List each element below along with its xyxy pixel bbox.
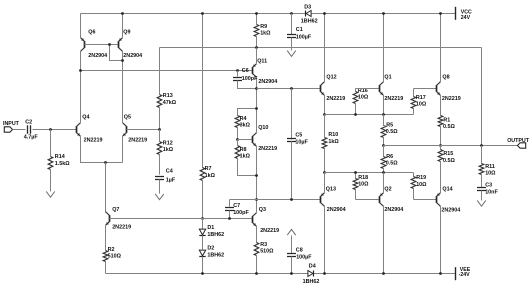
wire Q14 collector to bottom rail — [440, 207, 442, 274]
svg-text:10Ω: 10Ω — [416, 182, 427, 188]
svg-text:10nF: 10nF — [485, 189, 498, 195]
resistor R15 0.5Ω — [440, 146, 442, 150]
transistor Q3 2N2219 — [252, 216, 254, 223]
wire Q9 collector to Q5 collector — [122, 51, 124, 123]
transistor Q14 2N2904 — [436, 196, 438, 203]
svg-text:Q11: Q11 — [257, 59, 267, 65]
svg-text:0.5Ω: 0.5Ω — [386, 160, 398, 166]
capacitor C7 100pF — [229, 200, 231, 207]
svg-text:0.5Ω: 0.5Ω — [386, 129, 398, 135]
wire C7 top to Q3 collector node — [230, 199, 257, 201]
svg-text:C7: C7 — [233, 203, 240, 209]
wire Q11 emitter up — [256, 48, 258, 64]
wire top supply rail left of D3 — [81, 13, 306, 15]
wire VAS to Q12 base and C5 — [257, 88, 321, 90]
svg-text:R1: R1 — [443, 118, 450, 124]
OUTPUT terminal — [518, 143, 526, 148]
resistor R2 510Ω — [105, 226, 107, 251]
wire feedback drop to output rail — [481, 48, 483, 146]
svg-text:1BH62: 1BH62 — [207, 253, 224, 259]
diode D4 1BH62 — [308, 271, 313, 277]
svg-text:Q2: Q2 — [384, 187, 391, 193]
wire Q10 emitter to Q3 collector — [256, 146, 258, 213]
wire D2 to bottom rail — [202, 257, 204, 274]
svg-text:0.5Ω: 0.5Ω — [443, 124, 455, 130]
svg-text:Q4: Q4 — [82, 115, 89, 121]
wire Q1 emitter down — [383, 95, 385, 115]
wire node T — [325, 114, 414, 116]
svg-text:1kΩ: 1kΩ — [205, 173, 216, 179]
svg-text:R5: R5 — [386, 123, 393, 129]
wire tail to Q7 collector — [105, 163, 107, 213]
wire top supply rail right of D3 — [312, 13, 456, 15]
wire R16 top to Q1 base — [356, 88, 379, 90]
svg-text:10µF: 10µF — [295, 140, 308, 146]
svg-text:2N2904: 2N2904 — [88, 53, 107, 59]
junction tail node — [104, 161, 107, 164]
resistor R13 47kΩ — [159, 48, 161, 95]
svg-text:10Ω: 10Ω — [485, 170, 496, 176]
resistor R12 1kΩ — [159, 130, 161, 142]
transistor Q10 2N2219 — [252, 136, 254, 143]
svg-text:Q9: Q9 — [123, 30, 130, 36]
resistor R3 510Ω — [256, 226, 258, 243]
svg-text:10Ω: 10Ω — [358, 94, 369, 100]
resistor R16 10Ω — [355, 89, 357, 92]
svg-text:100pF: 100pF — [242, 76, 258, 82]
svg-text:24V: 24V — [461, 15, 471, 21]
transistor Q12 2N2219 — [320, 85, 322, 92]
svg-text:100pF: 100pF — [233, 210, 249, 216]
svg-text:1kΩ: 1kΩ — [328, 139, 339, 145]
wire bottom supply rail left of D4 — [106, 273, 308, 275]
resistor R10 1kΩ — [324, 115, 326, 138]
transistor Q8 2N2219 — [436, 85, 438, 92]
wire R8 to Q10 emitter node — [238, 159, 257, 176]
svg-text:Q5: Q5 — [124, 115, 131, 121]
svg-text:Q7: Q7 — [112, 207, 119, 213]
ground above C8 — [287, 229, 296, 235]
capacitor C4 1µF — [155, 177, 164, 180]
svg-text:C1: C1 — [296, 27, 303, 33]
svg-text:D2: D2 — [207, 246, 214, 252]
junction VAS top node — [255, 87, 258, 90]
wire output rail — [384, 145, 518, 147]
svg-text:2N2904: 2N2904 — [384, 207, 403, 213]
VCC terminal — [455, 7, 457, 20]
ground below R14 — [46, 191, 55, 197]
transistor Q2 2N2904 — [379, 196, 381, 203]
diode D1 1BH62 — [202, 219, 204, 230]
junction output rail left end — [382, 144, 385, 147]
resistor R18 10Ω — [355, 173, 357, 179]
capacitor C3 10nF — [477, 188, 486, 191]
ground below C1 — [287, 51, 296, 57]
wire C2 to Q4 base, node A — [33, 129, 77, 131]
transistor Q9 2N2904 — [118, 41, 120, 48]
wire Q7 base to bias chain and Q3 base — [110, 218, 252, 220]
svg-text:Q3: Q3 — [259, 207, 266, 213]
wire Q13 emitter up — [324, 173, 326, 193]
wire R17 top to Q8 base — [414, 88, 437, 90]
svg-text:1BH62: 1BH62 — [207, 232, 224, 238]
svg-text:R17: R17 — [416, 95, 426, 101]
wire diff output to Q11 base — [81, 70, 252, 72]
wire base tie to Q9 collector — [110, 45, 123, 61]
svg-text:R13: R13 — [163, 93, 173, 99]
svg-text:510Ω: 510Ω — [260, 248, 274, 254]
wire bottom supply rail right of D4 — [314, 273, 456, 275]
transistor Q4 2N2219 — [76, 126, 78, 133]
svg-text:1kΩ: 1kΩ — [260, 30, 271, 36]
wire feedback from output — [160, 47, 482, 49]
svg-text:R2: R2 — [108, 247, 115, 253]
capacitor C8 100µF — [291, 236, 293, 254]
junction node T — [323, 113, 326, 116]
svg-text:Q13: Q13 — [326, 187, 336, 193]
svg-text:2N2219: 2N2219 — [326, 96, 345, 102]
junction VAS bottom node — [255, 198, 258, 201]
wire Q6 collector down — [80, 51, 82, 71]
wire Q3 collector to Q13 base and C5 — [257, 199, 321, 201]
wire Q12 emitter down — [324, 95, 326, 115]
svg-text:47kΩ: 47kΩ — [163, 100, 177, 106]
wire Q2 collector to bottom rail — [383, 207, 385, 274]
junction node B — [323, 171, 326, 174]
wire Q1 collector to rail — [383, 14, 385, 82]
svg-text:1BH62: 1BH62 — [301, 19, 318, 25]
resistor R8 1kΩ — [235, 146, 240, 159]
svg-text:OUTPUT: OUTPUT — [507, 138, 530, 144]
resistor R14 1.5kΩ — [50, 130, 52, 157]
resistor R19 10Ω — [413, 173, 415, 177]
svg-text:INPUT: INPUT — [3, 121, 20, 127]
svg-text:R4: R4 — [240, 116, 247, 122]
transistor Q11 2N2904 — [252, 67, 254, 74]
wire Q6 emitter to rail — [80, 14, 82, 38]
svg-text:2N2219: 2N2219 — [128, 137, 147, 143]
wire R19 bottom to Q14 base — [414, 199, 437, 201]
svg-text:R3: R3 — [260, 242, 267, 248]
INPUT terminal — [4, 127, 12, 132]
wire Q5 base to feedback node — [127, 129, 160, 131]
wire node B — [325, 172, 414, 174]
svg-text:100µF: 100µF — [296, 34, 312, 40]
svg-text:1BH62: 1BH62 — [303, 279, 320, 285]
wire C4 to ground — [159, 180, 161, 194]
svg-text:3kΩ: 3kΩ — [240, 122, 251, 128]
wire input to C2 — [13, 129, 26, 131]
wire Q11 collector to Q10 collector — [256, 78, 258, 133]
svg-text:2N2219: 2N2219 — [260, 228, 279, 234]
svg-text:Q12: Q12 — [326, 75, 336, 81]
svg-text:2N2219: 2N2219 — [442, 96, 461, 102]
resistor R7 1kΩ — [202, 14, 204, 168]
svg-text:Q10: Q10 — [258, 125, 268, 131]
resistor R5 0.5Ω — [383, 115, 385, 126]
svg-text:1kΩ: 1kΩ — [240, 153, 251, 159]
capacitor C1 100µF — [290, 12, 293, 15]
node A junction input bias — [49, 128, 52, 131]
svg-text:10Ω: 10Ω — [416, 101, 427, 107]
svg-text:4.7µF: 4.7µF — [24, 135, 39, 141]
svg-text:D3: D3 — [304, 4, 311, 10]
svg-text:C3: C3 — [485, 183, 492, 189]
svg-text:510Ω: 510Ω — [108, 254, 122, 260]
svg-text:R8: R8 — [240, 147, 247, 153]
transistor Q5 2N2219 — [126, 126, 128, 133]
VEE terminal — [455, 267, 457, 280]
svg-text:R9: R9 — [260, 24, 267, 30]
svg-text:2N2904: 2N2904 — [258, 79, 277, 85]
svg-text:R18: R18 — [358, 175, 368, 181]
svg-text:D1: D1 — [207, 225, 214, 231]
capacitor C6 100pF — [236, 69, 239, 72]
svg-text:2N2219: 2N2219 — [112, 224, 131, 230]
svg-text:-24V: -24V — [459, 272, 470, 278]
wire C6 to Q11 collector node — [238, 81, 257, 89]
svg-text:D4: D4 — [309, 263, 316, 269]
diode D2 1BH62 — [202, 236, 204, 250]
transistor Q13 2N2904 — [320, 196, 322, 203]
svg-text:R11: R11 — [485, 164, 495, 170]
wire Q9 emitter to rail — [122, 14, 124, 38]
wire mirror base tie — [85, 44, 118, 46]
wire Q2 emitter up — [383, 173, 385, 193]
wire Q13 collector to bottom rail — [324, 207, 326, 274]
svg-text:C6: C6 — [242, 68, 249, 74]
resistor R11 10Ω — [481, 146, 483, 164]
svg-text:C2: C2 — [25, 119, 32, 125]
ground below C3 — [477, 200, 486, 206]
transistor Q6 2N2904 — [84, 41, 86, 48]
svg-text:C4: C4 — [166, 169, 173, 175]
svg-text:2N2219: 2N2219 — [84, 137, 103, 143]
junction bias node Q7/Q3 base — [201, 217, 204, 220]
wire diff pair tail — [81, 137, 123, 163]
wire to Q10 base — [238, 139, 252, 141]
junction R4/R8 node Q10 base — [236, 138, 239, 141]
diode D3 1BH62 — [306, 11, 311, 17]
wire Q5 emitter to tail — [122, 137, 124, 163]
junction Q5 base node — [158, 128, 161, 131]
wire Q8 emitter down — [440, 95, 442, 116]
svg-text:Q14: Q14 — [442, 187, 452, 193]
svg-text:2N2904: 2N2904 — [441, 208, 460, 214]
resistor R1 0.5Ω — [438, 116, 443, 127]
svg-text:Q1: Q1 — [384, 75, 391, 81]
svg-text:2N2219: 2N2219 — [258, 146, 277, 152]
svg-text:10Ω: 10Ω — [358, 181, 369, 187]
svg-text:C8: C8 — [296, 247, 303, 253]
capacitor C2 4.7µF — [28, 125, 31, 133]
svg-text:100µF: 100µF — [296, 254, 312, 260]
svg-text:R10: R10 — [328, 132, 338, 138]
junction Q11 emitter node — [255, 46, 258, 49]
svg-text:Q6: Q6 — [88, 30, 95, 36]
svg-text:2N2904: 2N2904 — [327, 207, 346, 213]
resistor R17 10Ω — [413, 89, 415, 97]
capacitor C5 10µF — [290, 87, 293, 90]
svg-text:2N2219: 2N2219 — [384, 96, 403, 102]
svg-text:R15: R15 — [443, 151, 453, 157]
svg-text:2N2904: 2N2904 — [123, 53, 142, 59]
wire node to Q4 collector — [80, 71, 82, 123]
svg-text:R19: R19 — [416, 175, 426, 181]
svg-text:1.5kΩ: 1.5kΩ — [55, 161, 70, 167]
svg-text:0.5Ω: 0.5Ω — [443, 158, 455, 164]
transistor Q7 2N2219 — [109, 215, 111, 222]
wire Q8 collector to rail — [440, 14, 442, 82]
svg-text:R7: R7 — [205, 166, 212, 172]
transistor Q1 2N2219 — [379, 85, 381, 92]
resistor R9 1kΩ — [256, 14, 258, 25]
ground below C4 — [155, 194, 164, 200]
resistor R6 0.5Ω — [383, 146, 385, 157]
wire Q12 collector to rail — [324, 14, 326, 82]
svg-text:Q8: Q8 — [442, 75, 449, 81]
svg-text:C5: C5 — [295, 133, 302, 139]
svg-text:1kΩ: 1kΩ — [163, 147, 174, 153]
svg-text:1µF: 1µF — [166, 177, 176, 183]
wire R18 bottom to Q2 base — [356, 199, 379, 201]
svg-text:R6: R6 — [386, 154, 393, 160]
resistor R4 3kΩ — [238, 109, 257, 116]
svg-text:R12: R12 — [163, 140, 173, 146]
svg-text:R14: R14 — [55, 154, 65, 160]
